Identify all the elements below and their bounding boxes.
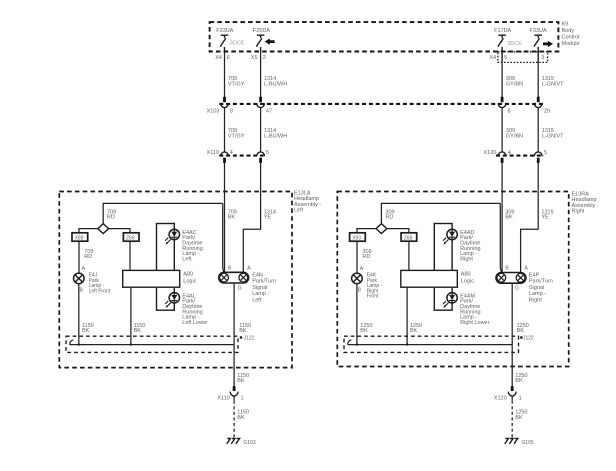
connector X103 terminal (309) [498,103,506,107]
wire 709 RD label at splice [107,209,116,220]
svg-text:BK: BK [228,214,236,220]
svg-text:Left: Left [294,208,304,214]
splice diamond (right) [376,224,387,234]
wire 309 (X120 to right headlamp) [501,163,503,191]
LED E4AC label [182,230,203,263]
svg-text:5: 5 [544,150,547,156]
splice pack J121 outline [66,336,238,352]
connector X110 terminal (1314) [257,152,265,163]
svg-text:BK: BK [410,328,418,334]
svg-text:E4P: E4P [529,272,540,278]
module K9 Body Control Module outline [210,22,559,51]
svg-text:Left Front: Left Front [89,288,111,294]
splice J121 label [240,335,255,341]
connector X120 inline terminal (bottom) [508,386,516,396]
svg-text:1: 1 [241,395,244,401]
svg-text:L-BU/WH: L-BU/WH [264,82,287,88]
connector X88 [72,233,88,242]
svg-text:F33UA: F33UA [530,28,547,34]
svg-text:3: 3 [541,55,544,61]
svg-text:8: 8 [230,108,233,114]
LED E4AC Park/Daytime Running Lamp Left [165,229,179,244]
svg-text:BK: BK [515,378,523,384]
svg-text:Park/Turn: Park/Turn [252,279,276,285]
svg-text:Lamp -: Lamp - [252,291,269,297]
wire 309 GY/BN (X103 to X120) [502,108,523,152]
svg-text:X120: X120 [494,395,507,401]
wire splice to X93 [357,229,376,233]
svg-text:A80: A80 [183,271,193,277]
svg-text:5: 5 [266,150,269,156]
svg-text:X93: X93 [352,235,361,241]
wire internal rail to splice (left) [103,203,224,272]
wire 1315 YE to right lamp pin A [521,191,554,273]
svg-text:X4: X4 [489,55,496,61]
module A80 logic internal rect (left) [157,224,175,311]
wire 309 BK feed into right lamp pin B [502,191,514,273]
svg-text:K9: K9 [562,22,569,28]
wire 1250 BK from E4K to J122 [357,284,373,345]
svg-text:BK: BK [360,328,368,334]
svg-text:BK: BK [237,415,245,421]
module A80 label (right) [461,271,474,284]
wire splice to X88 [79,229,98,233]
lamp E4N Park/Turn Signal Lamp Left [219,272,249,283]
wire 1250 BK (J122 to X120) label [515,373,527,384]
svg-text:Signal: Signal [252,285,267,291]
svg-text:8: 8 [508,108,511,114]
wire 1150 BK from E4J to J121 [79,284,94,345]
splice diamond (left) [98,224,109,234]
svg-text:Right: Right [572,209,585,215]
BCM pin X4-5 label [489,55,507,61]
svg-text:YE: YE [541,214,549,220]
wire 309 RD label at splice [385,209,394,220]
svg-text:X5: X5 [251,55,258,61]
harness connector X110 line [219,155,263,157]
svg-text:Park/Turn: Park/Turn [529,279,553,285]
connector X110 terminal (709) [221,152,229,163]
wire 709 (X110 to left headlamp) [224,163,226,191]
svg-text:Right: Right [529,298,542,304]
off-page arrow right (F33UA) [543,41,553,47]
wire 1150 BK (X110 to G103) [234,396,249,437]
fuse F33UA (left) [216,28,233,52]
svg-text:BK: BK [237,378,245,384]
connector Z68 [401,233,417,242]
wire internal rail to splice (right) [381,203,501,272]
svg-text:BK: BK [505,214,513,220]
svg-text:Right Lower: Right Lower [460,320,490,326]
splice pack J122 outline [344,336,519,352]
svg-text:Left: Left [182,257,192,263]
svg-text:BK: BK [134,328,142,334]
svg-text:Front: Front [367,294,379,300]
svg-text:Left: Left [252,298,262,304]
svg-text:1: 1 [519,395,522,401]
wire Z66 to A80 logic [129,241,131,270]
wire splice to Z68 [387,229,409,233]
wire 1314 L-BU/WH (BCM to X103) [259,52,287,103]
connector X110 inline terminal (bottom) [230,386,238,396]
svg-text:F25DA: F25DA [253,28,270,34]
wire 1314 (X110 to left headlamp) [260,163,262,191]
svg-text:3DCE: 3DCE [230,41,245,47]
svg-text:L-GN/VT: L-GN/VT [542,134,564,140]
svg-text:2: 2 [263,55,266,61]
lamp E4J label [89,273,111,295]
connector X103 terminal (1314) [257,103,265,107]
LED E4AD label [460,230,481,263]
wire 1314 YE to left lamp pin A [243,191,276,272]
svg-text:Module: Module [562,41,580,47]
svg-text:A: A [82,266,86,272]
svg-text:X120: X120 [484,150,497,156]
svg-text:X103: X103 [207,108,220,114]
svg-text:Z68: Z68 [404,235,413,241]
svg-text:Signal: Signal [529,285,544,291]
svg-text:A80: A80 [461,271,471,277]
LED E4AL label [182,293,208,326]
svg-text:BK: BK [82,328,90,334]
svg-text:BK: BK [517,328,525,334]
svg-text:Z66: Z66 [126,235,135,241]
wire 1250 BK from E4P pin G through J122 [512,283,529,387]
svg-text:GY/BN: GY/BN [506,82,523,88]
LED E4AL Park/Daytime Running Lamp Left Lower [165,293,179,308]
svg-text:L-BU/WH: L-BU/WH [264,134,287,140]
lamp E4K Park Lamp Right Front [352,273,363,284]
wire 1150 BK from A80 to J121 [131,287,146,344]
junction on J121 bus [130,343,132,345]
svg-text:X88: X88 [75,235,84,241]
BCM pin X5-2 label [251,55,266,61]
connector X120 terminal (1315) [534,152,542,163]
connector X93 [350,233,366,242]
wire 709 RD to E4J [79,241,93,273]
lamp E4P Park/Turn Signal Lamp Right [496,273,526,284]
assembly E13LA Headlamp Assembly Left outline [59,192,292,368]
wire 1315 (X120 to right headlamp) [537,163,539,191]
svg-text:Left Lower: Left Lower [182,320,208,326]
svg-text:6: 6 [227,55,230,61]
wire 1314 L-BU/WH (X103 to X110) [261,108,288,152]
wire 709 VT/GY (BCM to X103) [223,52,245,103]
module A80 Logic box (left) [123,270,180,287]
connector X120 terminal (309) [498,152,506,163]
svg-text:RD: RD [362,254,370,260]
svg-text:X110: X110 [207,150,219,156]
fuse F25DA [253,28,270,52]
wire 709 VT/GY (X103 to X110) [225,108,245,152]
wire 1250 BK (X120 to G105) [512,396,527,437]
svg-text:RD: RD [84,254,92,260]
splice bus bar J121 [70,340,234,345]
svg-text:Body: Body [562,28,575,34]
svg-text:F33UA: F33UA [216,28,233,34]
connector X103 terminal (709) [221,103,229,107]
assembly E13RA Headlamp Assembly Right outline [337,192,568,367]
wire 1315 L-GN/VT (BCM to X103) [537,62,564,102]
module A80 logic internal rect (right) [434,224,452,311]
svg-text:G: G [515,285,519,291]
lamp E4K label [367,273,383,300]
LED E4AM Park/Daytime Running Lamp Right Lower [443,293,457,308]
svg-text:G105: G105 [522,440,534,446]
assembly E13LA label [294,191,321,214]
lamp E4J Park Lamp Left Front [74,273,85,284]
svg-text:Lamp -: Lamp - [529,291,546,297]
connector X103 terminal (1315) [534,103,542,107]
svg-text:F17DA: F17DA [494,28,511,34]
LED E4AM label [460,293,490,326]
harness connector X103 line [219,103,545,105]
wire 1150 BK (J121 to X110) label [237,373,249,384]
splice bus bar J122 [348,340,513,345]
LED E4AD Park/Daytime Running Lamp Right [443,229,457,244]
svg-text:VT/GY: VT/GY [228,82,245,88]
connector Z66 [123,233,139,242]
wire 1150 BK from E4N pin G through J121 [234,283,251,387]
module A80 label (left) [183,271,196,284]
svg-text:Right: Right [460,257,473,263]
assembly E13RA label [572,192,599,215]
splice J122 label [520,335,534,341]
junction on J122 bus [406,343,408,345]
svg-text:YE: YE [264,214,272,220]
svg-text:Logic: Logic [183,278,196,284]
fuse F17DA [494,28,511,63]
off-page arrow left (F25DA) [265,38,275,44]
wire 309 GY/BN (BCM to X103) [501,62,523,102]
connector dotted box at BCM right pins [498,52,548,63]
svg-text:E4N: E4N [252,272,263,278]
ground G103 [227,439,256,447]
svg-text:Logic: Logic [461,278,474,284]
wire Z68 to A80 logic [408,241,410,270]
svg-text:J122: J122 [523,335,534,341]
svg-text:5: 5 [504,55,507,61]
lamp E4N label [252,272,276,303]
wire 1315 L-GN/VT (X103 to X120) [538,108,564,152]
wire splice to Z66 [109,229,130,233]
svg-text:X110: X110 [217,395,229,401]
wire 1250 BK from A80 to J122 [407,287,422,344]
svg-text:G103: G103 [243,440,255,446]
ground G105 [505,439,534,447]
module K9 label [562,22,580,48]
svg-text:L-GN/VT: L-GN/VT [542,82,564,88]
lamp E4P label [529,272,553,303]
svg-text:4: 4 [508,150,511,156]
svg-text:VT/GY: VT/GY [228,134,245,140]
svg-text:3DCE: 3DCE [507,41,522,47]
wire 309 RD to E4K [357,241,372,273]
svg-text:X4: X4 [215,55,222,61]
svg-text:GY/BN: GY/BN [506,134,523,140]
harness connector X120 line [496,155,544,157]
svg-text:BK: BK [515,415,523,421]
module A80 Logic box (right) [401,270,458,287]
wire 709 BK feed into left lamp pin B [225,191,237,272]
svg-text:4: 4 [230,150,233,156]
fuse F33UA (right) [530,28,547,63]
svg-text:Control: Control [562,35,580,41]
svg-text:RD: RD [107,214,115,220]
svg-text:G: G [238,285,242,291]
BCM pin X4-6 label [215,55,229,61]
svg-text:29: 29 [544,108,550,114]
svg-text:J121: J121 [244,335,255,341]
svg-text:RD: RD [385,214,393,220]
svg-text:BK: BK [239,328,247,334]
svg-text:A: A [360,266,364,272]
svg-text:47: 47 [266,108,272,114]
